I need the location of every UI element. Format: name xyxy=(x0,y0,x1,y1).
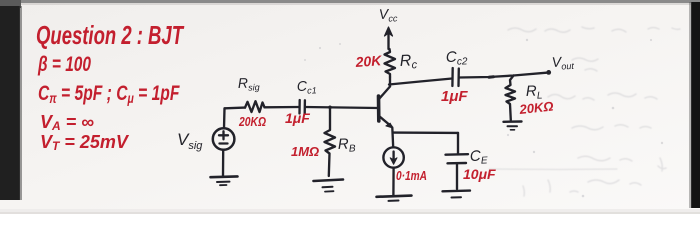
wire source to ground xyxy=(392,168,395,196)
right black bar xyxy=(691,2,700,208)
svg-text:1MΩ: 1MΩ xyxy=(291,144,319,159)
Vcc arrow xyxy=(387,31,389,49)
bottom light edge xyxy=(0,209,700,214)
resistor Rc xyxy=(385,49,396,77)
ground under CE xyxy=(443,189,471,192)
wire Cc1 to base with RB junction xyxy=(305,107,378,108)
faint bleed-through scribbles right side xyxy=(489,27,680,196)
svg-text:20K: 20K xyxy=(354,52,383,70)
capacitor Cc1 xyxy=(298,100,301,114)
ink blob on wire xyxy=(489,75,494,78)
svg-text:1μF: 1μF xyxy=(441,88,468,105)
svg-text:VA = ∞: VA = ∞ xyxy=(40,112,94,133)
wire collector node to Cc2 xyxy=(389,79,452,85)
svg-text:Cπ = 5pF ; Cμ = 1pF: Cπ = 5pF ; Cμ = 1pF xyxy=(38,81,180,107)
resistor Rsig xyxy=(245,101,265,112)
source Vsig xyxy=(223,108,226,128)
svg-text:β = 100: β = 100 xyxy=(37,53,91,76)
wire Rc bottom to collector node xyxy=(389,77,391,86)
current source I1 xyxy=(383,147,403,167)
resistor RL xyxy=(506,76,516,121)
svg-text:1μF: 1μF xyxy=(285,110,310,126)
capacitor Cc2 xyxy=(451,68,454,86)
resistor RB xyxy=(325,107,336,176)
base wire: Vsig node to base xyxy=(225,106,245,109)
svg-text:0·1mA: 0·1mA xyxy=(396,168,427,183)
wire emitter node to CE xyxy=(393,131,458,134)
ground under current source xyxy=(377,196,412,197)
ground under Vsig xyxy=(211,175,238,178)
svg-text:20KΩ: 20KΩ xyxy=(238,114,266,129)
ground under RB xyxy=(314,180,344,182)
ground under RL xyxy=(504,120,522,123)
emitter wire down xyxy=(391,128,394,148)
collector stroke xyxy=(379,87,390,100)
top gray edge strip xyxy=(0,0,700,3)
node: RB tap junction xyxy=(328,106,332,110)
node dot at Vout xyxy=(546,70,551,75)
wire Cc2 to Vout with RL junction xyxy=(459,73,548,78)
capacitor CE xyxy=(457,133,459,154)
emitter arrowhead xyxy=(386,123,393,128)
svg-text:Question 2 : BJT: Question 2 : BJT xyxy=(36,20,185,50)
left black bar xyxy=(0,0,21,8)
svg-text:10μF: 10μF xyxy=(463,166,496,182)
transistor Q1 base bar xyxy=(377,96,381,121)
wire Rsig to Cc1 xyxy=(265,106,300,109)
emitter stroke xyxy=(379,116,392,127)
